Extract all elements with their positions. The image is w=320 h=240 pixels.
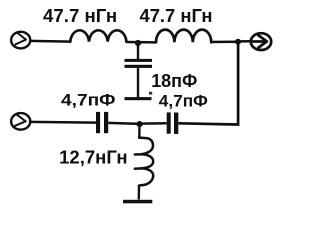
wire C2 to corner and up to node B <box>178 42 238 125</box>
speckle artifact <box>149 92 152 95</box>
wire L3 to ground <box>138 185 141 199</box>
wire L2 to node B <box>211 40 236 43</box>
wire node A down to C3 <box>137 44 139 59</box>
wire P3 to C1 <box>29 121 96 124</box>
capacitor C2 4.7pF <box>167 112 179 133</box>
wire node C to C2 <box>142 122 167 125</box>
wire C3 to ground <box>137 68 139 98</box>
svg-text:4,7пФ: 4,7пФ <box>159 92 208 111</box>
wire C1 to node C <box>108 122 137 125</box>
wire P1 to L1 <box>30 40 71 43</box>
capacitor C1 4.7pF <box>96 112 108 133</box>
node A junction dot <box>135 40 141 46</box>
svg-text:18пФ: 18пФ <box>151 71 197 91</box>
wire node B to P2 <box>241 40 251 43</box>
ground (below C3) <box>125 97 152 100</box>
generator port P2 (right, common output) <box>251 33 271 50</box>
inductor L2 47.7nH <box>156 30 211 43</box>
generator port P3 (bottom left) <box>11 113 30 130</box>
generator port P1 (top left) <box>11 32 30 49</box>
inductor L3 12.7nH (shunt) <box>135 138 153 186</box>
ground (below L3) <box>123 200 152 204</box>
svg-text:4,7пФ: 4,7пФ <box>61 90 116 109</box>
svg-text:47.7 нГн: 47.7 нГн <box>43 5 117 26</box>
inductor L1 47.7nH <box>70 30 126 41</box>
node B junction dot <box>235 39 241 45</box>
svg-text:12,7нГн: 12,7нГн <box>59 147 128 168</box>
wire node C down to L3 <box>138 125 141 138</box>
node C junction dot <box>137 121 143 127</box>
wire L1 to node A <box>126 41 156 44</box>
svg-text:47.7 нГн: 47.7 нГн <box>140 5 213 26</box>
capacitor C3 18pF (shunt) <box>125 59 153 68</box>
